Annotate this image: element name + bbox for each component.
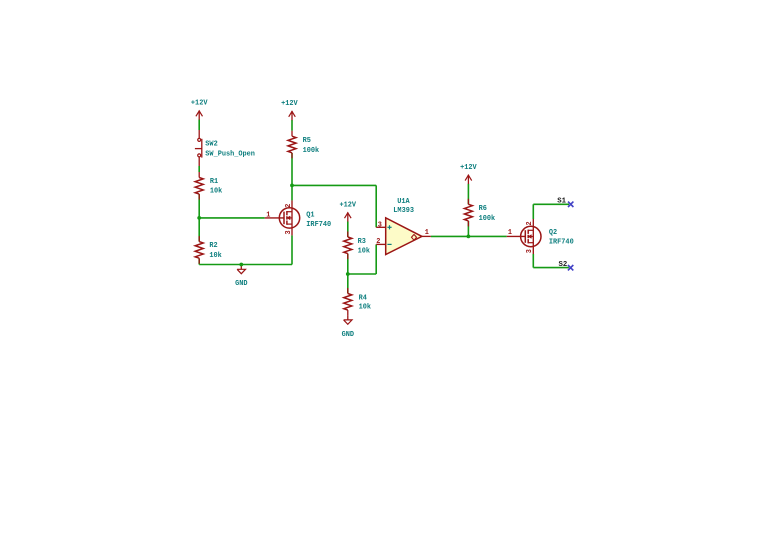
svg-text:2: 2 xyxy=(376,238,380,246)
svg-text:GND: GND xyxy=(342,331,354,339)
svg-text:SW_Push_Open: SW_Push_Open xyxy=(205,151,255,159)
svg-text:3: 3 xyxy=(378,221,382,229)
svg-text:S2: S2 xyxy=(559,261,568,269)
svg-text:S1: S1 xyxy=(557,198,566,206)
svg-text:Q1: Q1 xyxy=(306,212,314,220)
svg-text:100k: 100k xyxy=(303,147,320,155)
svg-text:U1A: U1A xyxy=(397,198,410,206)
svg-text:IRF740: IRF740 xyxy=(306,221,331,229)
svg-text:R4: R4 xyxy=(359,294,367,302)
svg-text:2: 2 xyxy=(526,221,534,225)
svg-text:3: 3 xyxy=(526,249,534,253)
svg-text:R3: R3 xyxy=(358,238,366,246)
svg-text:1: 1 xyxy=(425,229,429,237)
svg-text:+12V: +12V xyxy=(460,164,477,172)
svg-text:SW2: SW2 xyxy=(205,140,217,148)
svg-text:1: 1 xyxy=(266,211,270,219)
svg-text:GND: GND xyxy=(235,280,247,288)
svg-text:2: 2 xyxy=(285,204,293,208)
svg-text:+12V: +12V xyxy=(281,100,298,108)
svg-text:10k: 10k xyxy=(358,248,370,256)
svg-text:R2: R2 xyxy=(209,242,217,250)
svg-text:+12V: +12V xyxy=(340,201,357,209)
svg-text:+12V: +12V xyxy=(191,100,208,108)
svg-text:10k: 10k xyxy=(209,252,221,260)
svg-text:R6: R6 xyxy=(479,205,487,213)
svg-text:R5: R5 xyxy=(303,137,311,145)
svg-text:R1: R1 xyxy=(210,178,218,186)
svg-text:LM393: LM393 xyxy=(393,207,414,215)
svg-text:IRF740: IRF740 xyxy=(549,239,574,247)
svg-text:3: 3 xyxy=(285,230,293,234)
svg-text:Q2: Q2 xyxy=(549,229,557,237)
svg-text:100k: 100k xyxy=(479,215,496,223)
svg-text:1: 1 xyxy=(508,229,512,237)
svg-text:10k: 10k xyxy=(210,188,222,196)
svg-text:10k: 10k xyxy=(359,303,371,311)
